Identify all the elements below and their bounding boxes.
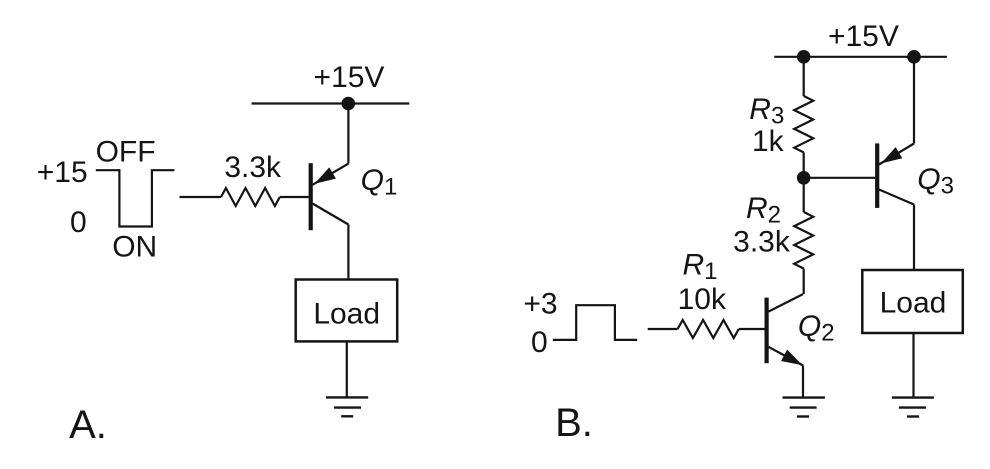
svg-text:Q3: Q3 [917,163,954,200]
wire: Load to ground (A) [346,341,348,397]
wire: rail to Q1 emitter [347,104,349,164]
svg-text:3.3k: 3.3k [733,226,791,259]
transistor Q3 base bar [875,143,879,208]
wire: R3 to node [803,152,805,177]
svg-text:3.3k: 3.3k [224,151,282,184]
wire: Q1 collector to Load (A) [347,225,349,280]
svg-text:+15: +15 [37,156,88,189]
svg-text:0: 0 [531,326,548,359]
supply rail (B) [774,56,947,58]
wire: input to resistor 3.3k [180,196,222,198]
load box (B) [862,270,963,333]
Q2 emitter [768,347,803,366]
supply rail (A) [252,102,410,104]
resistor R2 [794,212,813,269]
Q2 collector [768,294,803,312]
wire: Load to ground (B) [912,333,914,398]
junction dot (A rail) [342,97,356,111]
ground (B, Q2 emitter) [783,398,825,417]
svg-text:A.: A. [69,403,107,447]
wire: R1 to Q2 base [739,328,765,330]
Q2 emitter arrow (NPN, points away from base) [781,350,803,366]
svg-text:0: 0 [70,206,87,239]
wire: rail to R3 [803,57,805,96]
svg-text:+15V: +15V [828,20,899,53]
resistor 3.3k (A base resistor) [221,188,280,206]
transistor Q2 base bar [765,298,769,364]
wire: Q2 emitter to ground [802,366,804,398]
Q3 emitter [879,144,914,165]
ground (B, under Load) [892,398,934,417]
wire: node to R2 [803,178,805,212]
svg-text:ON: ON [112,231,157,264]
svg-text:Load: Load [313,298,380,331]
wire: resistor to Q1 base [280,196,309,198]
wire: R2 to Q2 collector [803,269,805,295]
junction dot left (B rail, R3 branch) [797,50,811,64]
svg-text:+15V: +15V [314,61,385,94]
svg-text:+3: +3 [523,287,557,320]
svg-text:Load: Load [880,287,947,320]
Q1 collector [313,204,349,225]
svg-text:R2: R2 [746,192,781,229]
svg-text:R1: R1 [682,248,717,285]
ground (A) [326,397,368,416]
svg-text:10k: 10k [678,283,727,316]
load box (A) [296,280,398,342]
input waveform (B) [553,305,637,340]
resistor R3 [794,96,813,152]
transistor Q1 base bar [309,163,313,230]
wire: rail to Q3 emitter [913,57,915,144]
wire: Q3 collector to Load (B) [913,205,915,271]
Q1 emitter [313,164,349,185]
wire: node to Q3 base [804,177,875,179]
node dot (R3 / R2 / Q3 base junction) [797,171,811,185]
input waveform (A) [96,170,175,226]
resistor R1 [678,320,739,338]
svg-text:B.: B. [555,401,593,445]
svg-text:OFF: OFF [96,136,156,169]
Q1 emitter arrow (PNP, points into base) [315,167,336,183]
Q3 emitter arrow (PNP, points into base) [881,147,902,163]
junction dot right (B rail, Q3 emitter branch) [907,50,921,64]
svg-text:1k: 1k [752,125,785,158]
Q3 collector [879,190,914,205]
svg-text:Q2: Q2 [798,310,835,347]
svg-text:Q1: Q1 [361,164,398,201]
wire: input to resistor R1 [648,328,678,330]
